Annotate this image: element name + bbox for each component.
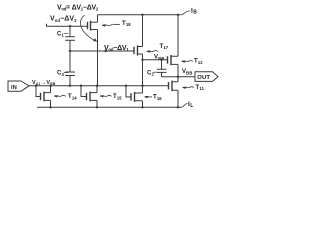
svg-text:T11: T11 <box>196 85 205 91</box>
svg-text:IB: IB <box>191 7 197 15</box>
svg-text:T16: T16 <box>153 95 162 101</box>
svg-text:C2: C2 <box>147 71 154 77</box>
svg-text:OUT: OUT <box>197 75 210 81</box>
svg-text:C3: C3 <box>57 71 64 77</box>
svg-text:T15: T15 <box>113 94 122 100</box>
svg-text:Vod−ΔV1: Vod−ΔV1 <box>104 45 129 52</box>
svg-text:T14: T14 <box>68 94 77 100</box>
svg-text:IN: IN <box>11 85 17 91</box>
svg-text:T17: T17 <box>160 44 169 50</box>
svg-text:IL: IL <box>188 101 194 109</box>
svg-text:T18: T18 <box>122 21 131 27</box>
svg-text:VBB: VBB <box>182 69 193 75</box>
svg-text:C1: C1 <box>57 31 64 37</box>
svg-text:T12: T12 <box>194 59 203 65</box>
svg-text:Vod−ΔV2: Vod−ΔV2 <box>50 16 77 23</box>
svg-text:VBB: VBB <box>154 55 165 61</box>
